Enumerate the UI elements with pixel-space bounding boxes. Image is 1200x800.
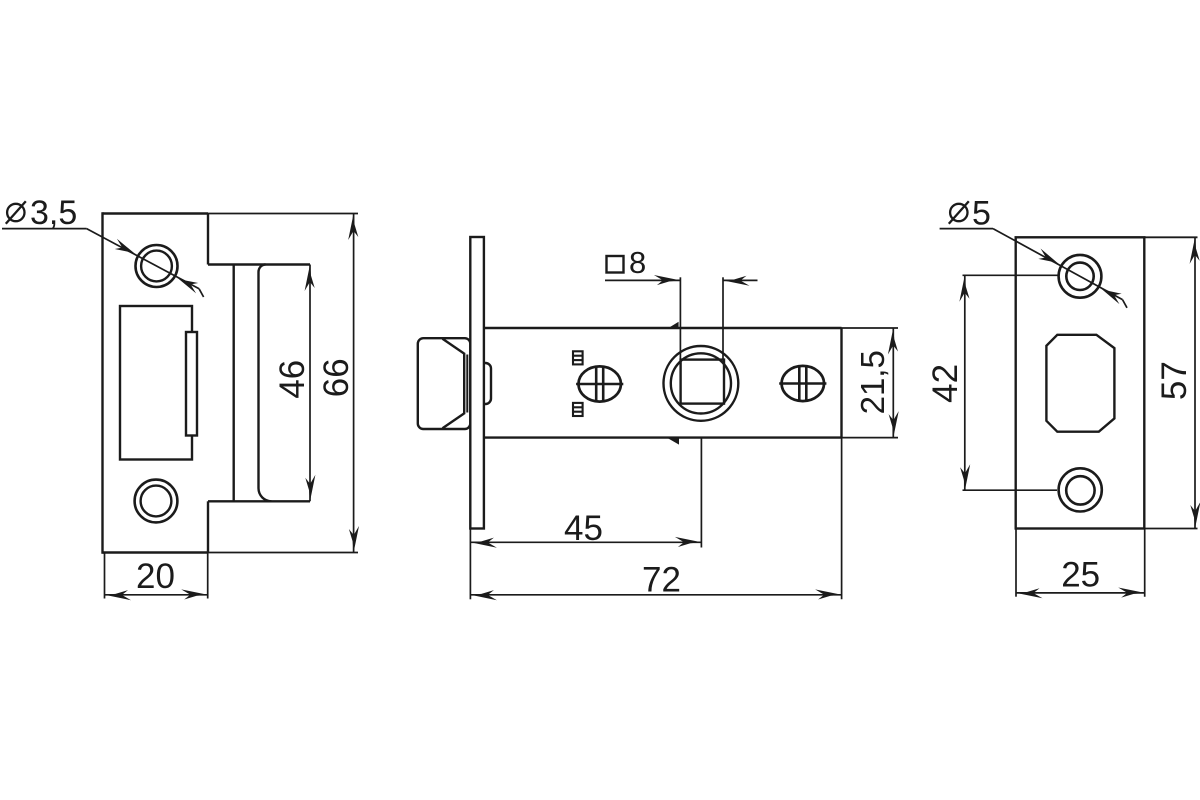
svg-text:42: 42 bbox=[926, 364, 965, 403]
svg-text:57: 57 bbox=[1155, 361, 1194, 400]
svg-text:25: 25 bbox=[1061, 556, 1100, 595]
svg-text:72: 72 bbox=[642, 561, 681, 600]
svg-text:3,5: 3,5 bbox=[30, 194, 77, 232]
svg-text:45: 45 bbox=[564, 509, 603, 548]
svg-text:46: 46 bbox=[273, 360, 312, 399]
svg-text:5: 5 bbox=[972, 195, 991, 233]
svg-text:8: 8 bbox=[629, 245, 646, 280]
svg-text:20: 20 bbox=[136, 557, 175, 596]
svg-text:66: 66 bbox=[317, 358, 356, 397]
svg-text:21,5: 21,5 bbox=[854, 350, 891, 414]
